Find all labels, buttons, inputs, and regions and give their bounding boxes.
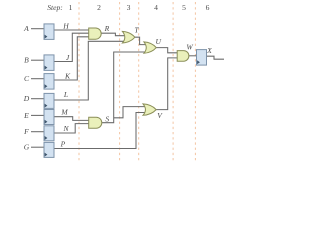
svg-text:3: 3	[127, 3, 131, 12]
svg-text:N: N	[62, 124, 69, 133]
svg-text:K: K	[64, 71, 71, 80]
svg-text:R: R	[104, 24, 110, 33]
svg-text:L: L	[63, 90, 68, 99]
svg-text:6: 6	[206, 3, 210, 12]
svg-text:A: A	[23, 24, 29, 33]
svg-text:W: W	[186, 43, 193, 52]
svg-text:H: H	[62, 22, 69, 31]
svg-text:S: S	[105, 115, 109, 124]
svg-text:5: 5	[182, 3, 186, 12]
svg-text:1: 1	[69, 3, 73, 12]
svg-text:B: B	[24, 56, 29, 65]
svg-text:Step:: Step:	[47, 3, 63, 12]
svg-text:2: 2	[97, 3, 101, 12]
svg-text:G: G	[24, 143, 30, 152]
svg-text:U: U	[156, 37, 162, 46]
svg-text:F: F	[23, 127, 29, 136]
svg-text:P: P	[60, 140, 66, 149]
svg-text:X: X	[206, 46, 212, 55]
svg-text:4: 4	[154, 3, 158, 12]
svg-text:D: D	[23, 94, 30, 103]
svg-text:M: M	[60, 108, 68, 117]
svg-text:E: E	[23, 111, 29, 120]
